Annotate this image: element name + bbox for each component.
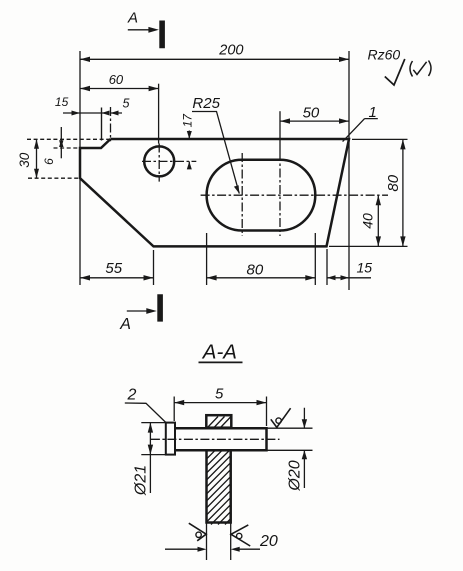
svg-text:Rz60: Rz60 bbox=[368, 47, 401, 63]
svg-text:40: 40 bbox=[359, 213, 375, 229]
svg-text:5: 5 bbox=[123, 97, 130, 111]
svg-text:17: 17 bbox=[181, 113, 195, 128]
svg-text:A: A bbox=[127, 10, 138, 27]
svg-text:Ø21: Ø21 bbox=[133, 465, 150, 496]
svg-text:15: 15 bbox=[55, 95, 69, 109]
svg-text:6: 6 bbox=[42, 158, 56, 165]
svg-text:1: 1 bbox=[369, 104, 377, 121]
svg-text:60: 60 bbox=[109, 72, 124, 87]
svg-text:2: 2 bbox=[127, 387, 137, 404]
svg-text:R25: R25 bbox=[192, 95, 220, 112]
svg-text:15: 15 bbox=[357, 260, 373, 276]
svg-text:A: A bbox=[119, 316, 131, 333]
svg-text:200: 200 bbox=[218, 43, 243, 59]
svg-text:A-A: A-A bbox=[201, 341, 237, 364]
svg-text:Ø20: Ø20 bbox=[287, 460, 304, 491]
svg-text:20: 20 bbox=[259, 533, 278, 550]
svg-text:80: 80 bbox=[247, 262, 264, 279]
svg-text:50: 50 bbox=[303, 105, 320, 122]
svg-text:80: 80 bbox=[385, 174, 402, 191]
svg-text:55: 55 bbox=[105, 260, 122, 277]
svg-text:5: 5 bbox=[215, 386, 224, 403]
svg-text:30: 30 bbox=[17, 152, 32, 168]
